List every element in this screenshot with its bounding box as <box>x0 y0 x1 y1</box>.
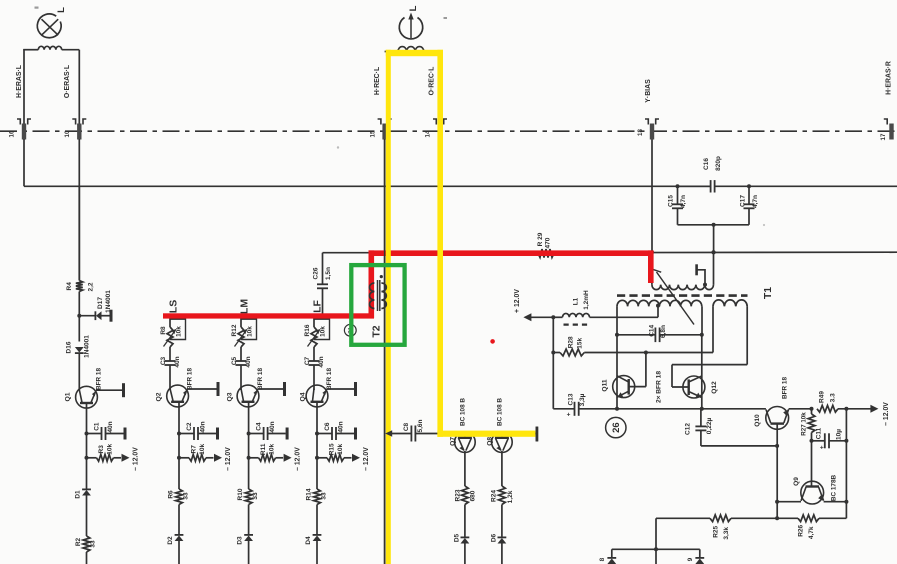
trimmer R8 10k <box>160 316 185 354</box>
resistor R11 10k to -12V <box>247 443 292 462</box>
transistor Q3 BFR18 <box>226 368 286 407</box>
coil of erase head <box>38 46 61 49</box>
wire C8 line <box>392 433 412 435</box>
node T1 right top <box>712 250 716 254</box>
svg-text:470: 470 <box>545 237 552 248</box>
label 2x BFR 18 <box>656 371 663 403</box>
transformer T2 secondary <box>381 283 386 309</box>
capacitor C26 1,5n <box>313 253 333 317</box>
svg-text:C12: C12 <box>685 423 692 435</box>
svg-text:4,7k: 4,7k <box>808 526 815 539</box>
wire Q2 emitter chain <box>178 402 180 458</box>
resistor R28 15k <box>553 336 713 356</box>
svg-text:680: 680 <box>470 490 477 501</box>
label H-REC-L <box>374 67 381 95</box>
svg-text:R49: R49 <box>819 391 826 403</box>
svg-text:10k: 10k <box>268 443 275 454</box>
wire +12V down to C13 <box>552 353 554 409</box>
wire bottom-left drop <box>654 518 658 564</box>
T1 center tap <box>656 304 660 318</box>
svg-text:40n: 40n <box>269 421 276 432</box>
transformer T2 primary <box>370 283 375 309</box>
svg-text:BFR 18: BFR 18 <box>186 368 193 390</box>
svg-text:D5: D5 <box>453 533 460 542</box>
diode D1 <box>75 458 91 536</box>
svg-text:BC 178B: BC 178B <box>831 474 838 501</box>
wire bias line (y252) <box>323 251 897 254</box>
svg-text:C2: C2 <box>186 422 193 431</box>
node T1 left top <box>650 250 654 254</box>
T1 adjust arrow <box>653 269 694 324</box>
svg-text:R16: R16 <box>304 324 311 336</box>
node Q10/C12 <box>775 444 779 448</box>
capacitor C15 4,7n <box>668 186 688 225</box>
svg-text:2,2: 2,2 <box>87 282 94 291</box>
wire H-REC-L vertical full <box>384 139 386 564</box>
svg-text:10k: 10k <box>176 326 183 337</box>
wire record head top <box>385 51 440 53</box>
svg-text:Q1: Q1 <box>65 392 72 401</box>
transformer T1 bottom winding A <box>617 300 702 334</box>
node R49/C11 branch <box>844 407 848 411</box>
capacitor C17 4,7n <box>739 186 759 225</box>
svg-text:BC 108 B: BC 108 B <box>460 398 467 426</box>
capacitor C8 5,6n <box>403 419 537 441</box>
transformer T2 core <box>378 280 380 311</box>
transistor Q11 BFR18 <box>601 351 648 398</box>
svg-text:R24: R24 <box>491 490 498 502</box>
capacitor C13 3,3µ <box>553 393 586 418</box>
resistor R15 10k to -12V <box>315 443 360 462</box>
capacitor C2 40n <box>177 421 219 440</box>
wire C11 right vertical <box>845 409 847 519</box>
svg-text:Q7: Q7 <box>449 437 456 446</box>
svg-text:– 12.0V: – 12.0V <box>132 447 139 471</box>
resistor R49 3.3 <box>817 391 871 413</box>
erase head L (circle with X) <box>37 14 61 38</box>
C8 junction arrow <box>385 430 392 437</box>
svg-text:3.3: 3.3 <box>830 393 837 402</box>
diode D17 1N4001 <box>79 290 112 322</box>
capacitor C11 10µ <box>810 427 849 451</box>
svg-text:33: 33 <box>183 492 190 500</box>
svg-text:L1: L1 <box>573 297 580 305</box>
svg-text:H·REC·L: H·REC·L <box>374 67 381 95</box>
svg-text:Q3: Q3 <box>226 392 233 401</box>
svg-text:10µ: 10µ <box>835 429 842 440</box>
svg-text:5,6n: 5,6n <box>417 419 424 432</box>
capacitor C12 0,22µ <box>685 409 777 446</box>
svg-text:L: L <box>408 5 419 11</box>
svg-text:R2: R2 <box>75 537 82 546</box>
transistor Q12 BFR18 <box>672 365 747 398</box>
circled 26 <box>606 417 626 437</box>
resistor R25 3,3k <box>710 515 779 540</box>
label O-REC-L <box>428 67 435 96</box>
resistor R24 1,2k <box>491 486 515 505</box>
svg-text:D3: D3 <box>237 536 244 545</box>
coil of record head <box>398 47 424 52</box>
svg-text:Q12: Q12 <box>711 381 718 394</box>
transistor Q9 BC178B <box>775 441 848 504</box>
svg-text:26: 26 <box>611 422 622 433</box>
svg-text:R11: R11 <box>260 443 267 455</box>
svg-text:D2: D2 <box>167 536 174 545</box>
yellow highlight trace <box>386 50 536 564</box>
svg-text:16: 16 <box>9 130 16 137</box>
svg-text:D1: D1 <box>75 490 82 499</box>
diode D16 1N4001 <box>65 316 90 390</box>
label LS <box>167 300 179 313</box>
label -12.0V col2 <box>225 447 232 471</box>
svg-text:40n: 40n <box>318 356 325 367</box>
svg-text:D17: D17 <box>97 297 104 309</box>
wire +12V down to R28 <box>551 317 555 354</box>
svg-text:R26: R26 <box>797 524 804 536</box>
wire LF line (under red) <box>170 315 374 317</box>
resistor R3 10k to -12V <box>85 443 130 461</box>
label L (record head) <box>408 5 419 11</box>
T1 tap bracket <box>695 264 707 286</box>
svg-text:C16: C16 <box>703 158 710 170</box>
diode D9 <box>687 549 704 564</box>
svg-text:D6: D6 <box>490 533 497 542</box>
inductor L1 1,2mH <box>553 290 658 325</box>
svg-text:O·REC·L: O·REC·L <box>428 67 435 96</box>
trimmer R12 10k <box>231 316 256 354</box>
svg-text:R3: R3 <box>98 445 105 454</box>
svg-text:T1: T1 <box>762 287 774 299</box>
svg-text:40n: 40n <box>338 421 345 432</box>
svg-text:– 12.0V: – 12.0V <box>295 447 302 471</box>
svg-text:LF: LF <box>311 300 323 313</box>
capacitor C3 40n <box>160 354 181 390</box>
connector pin 15 <box>369 119 391 140</box>
transformer T1 core <box>617 294 748 297</box>
svg-text:8: 8 <box>599 557 606 561</box>
wire oscillator emitter rail <box>579 408 766 410</box>
svg-text:C14: C14 <box>648 324 655 336</box>
svg-text:BFR 18: BFR 18 <box>782 377 789 399</box>
resistor R7 10k to -12V <box>177 443 222 461</box>
svg-text:C6: C6 <box>324 422 331 431</box>
wire Q3 emitter chain <box>248 402 250 458</box>
label T1 <box>762 287 774 299</box>
wire R25 line <box>656 517 710 519</box>
diode D3 <box>237 505 253 564</box>
svg-text:R6: R6 <box>168 490 175 499</box>
svg-text:10k: 10k <box>320 326 327 337</box>
green highlight box <box>351 265 404 345</box>
circled 21 <box>344 324 356 336</box>
svg-text:3,3µ: 3,3µ <box>579 393 586 406</box>
svg-text:2× BFR 18: 2× BFR 18 <box>656 371 663 403</box>
resistor R27 10k <box>801 409 815 441</box>
svg-text:BC 108 B: BC 108 B <box>497 398 504 426</box>
label Y-BIAS <box>645 79 652 103</box>
resistor R14 33 <box>306 458 328 505</box>
label H-ERAS-L <box>16 65 23 98</box>
svg-text:R15: R15 <box>328 443 335 455</box>
svg-text:C8: C8 <box>403 422 410 431</box>
svg-text:Q2: Q2 <box>155 392 162 401</box>
terminal bar <box>536 427 539 442</box>
capacitor C4 40n <box>247 421 289 440</box>
svg-text:40n: 40n <box>245 356 252 367</box>
svg-text:R27 10k: R27 10k <box>801 412 808 436</box>
wire Q4 emitter chain <box>316 402 318 458</box>
svg-text:C11: C11 <box>816 427 823 439</box>
capacitor C5 40n <box>231 354 252 390</box>
label T2 <box>371 325 383 337</box>
svg-text:Q8: Q8 <box>487 437 494 446</box>
capacitor C7 40n <box>304 354 325 390</box>
yellow keeps black wire visible <box>384 139 386 564</box>
wire Q10 emitter to R49 <box>789 407 814 411</box>
svg-text:1,2k: 1,2k <box>507 490 514 503</box>
svg-text:17: 17 <box>880 133 887 140</box>
resistor R23 680 <box>455 486 477 505</box>
wire Q1 emitter chain <box>86 403 88 458</box>
connector pin 17 <box>880 119 893 140</box>
board boundary dash-dot line <box>0 130 897 132</box>
diode D2 <box>167 505 183 564</box>
svg-text:40n: 40n <box>107 421 114 432</box>
connector pin 14 <box>425 119 447 140</box>
svg-text:– 12.0V: – 12.0V <box>363 447 370 471</box>
svg-text:C3: C3 <box>160 356 167 365</box>
svg-text:H·ERAS·R: H·ERAS·R <box>885 61 892 95</box>
label H-ERAS-R <box>885 61 892 95</box>
node R4/D17/D16 <box>77 314 81 318</box>
label O-ERAS-L <box>64 65 71 98</box>
label -12.0V col4 <box>363 447 370 471</box>
svg-text:H·ERAS·L: H·ERAS·L <box>16 65 23 98</box>
svg-text:R14: R14 <box>306 488 313 500</box>
record head L (circle with arrow) <box>399 13 422 39</box>
svg-text:C15: C15 <box>668 195 675 207</box>
svg-text:D4: D4 <box>305 536 312 545</box>
node C17 on rail <box>747 184 751 188</box>
svg-text:R23: R23 <box>455 489 462 501</box>
svg-text:R8: R8 <box>160 326 167 335</box>
svg-text:C5: C5 <box>231 356 238 365</box>
svg-text:LS: LS <box>167 300 179 313</box>
capacitor C14 6,8n <box>615 324 704 342</box>
transistor Q10 BFR18 <box>754 377 788 519</box>
wire erase-left ground rail (y186) <box>24 139 897 186</box>
diode D8 <box>599 549 616 564</box>
svg-text:10k: 10k <box>199 443 206 454</box>
label -12.0V col1 <box>132 447 139 471</box>
diode D5 <box>453 505 469 564</box>
svg-text:1,2mH: 1,2mH <box>583 290 590 310</box>
svg-text:33: 33 <box>321 492 328 500</box>
svg-text:Q9: Q9 <box>793 477 800 486</box>
svg-text:1,5n: 1,5n <box>325 267 332 280</box>
svg-text:R 29: R 29 <box>537 232 544 246</box>
svg-text:3,3k: 3,3k <box>723 527 730 540</box>
label -12.0V col3 <box>295 447 302 471</box>
svg-text:C7: C7 <box>304 356 311 365</box>
svg-text:6,8n: 6,8n <box>660 325 667 338</box>
wire O-ERAS-L continues <box>78 139 80 281</box>
svg-text:BFR 18: BFR 18 <box>95 368 102 390</box>
svg-text:BFR 18: BFR 18 <box>257 368 264 390</box>
trimmer R16 10k <box>304 316 329 354</box>
svg-text:820p: 820p <box>715 156 722 171</box>
svg-text:40n: 40n <box>174 356 181 367</box>
transformer T1 top winding <box>652 252 714 290</box>
wire O-REC-L vertical <box>439 139 441 434</box>
svg-text:– 12.0V: – 12.0V <box>225 447 232 471</box>
svg-text:BFR 18: BFR 18 <box>326 368 333 390</box>
wire erase head right (O-ERAS-L) <box>62 50 80 124</box>
svg-text:R12: R12 <box>231 324 238 336</box>
svg-text:C1: C1 <box>94 422 101 431</box>
svg-text:4,7n: 4,7n <box>752 195 759 208</box>
node +12V rail <box>551 315 555 319</box>
transistor Q8 BC108B <box>487 398 513 486</box>
svg-text:10k: 10k <box>337 443 344 454</box>
svg-text:10k: 10k <box>247 326 254 337</box>
svg-text:18: 18 <box>637 129 644 136</box>
red dot mark <box>490 339 495 344</box>
svg-text:Q4: Q4 <box>299 392 306 401</box>
svg-text:1N4001: 1N4001 <box>105 290 112 313</box>
resistor R4 2,2 <box>66 186 94 315</box>
connector pin 18 <box>637 119 659 140</box>
transistor Q1 BFR18 <box>65 368 125 409</box>
svg-text:Q10: Q10 <box>754 414 761 427</box>
svg-text:C17: C17 <box>739 195 746 207</box>
svg-text:R7: R7 <box>190 445 197 454</box>
svg-text:R10: R10 <box>237 488 244 500</box>
svg-text:T2: T2 <box>371 325 383 337</box>
node C15 on rail <box>676 184 680 188</box>
label LM <box>238 299 250 314</box>
transformer T1 bottom winding B <box>713 300 747 365</box>
label LF <box>311 300 323 313</box>
svg-text:14: 14 <box>425 130 432 137</box>
svg-text:15: 15 <box>369 130 376 137</box>
terminal bar over yellow <box>536 427 539 442</box>
svg-text:10: 10 <box>64 130 71 137</box>
svg-text:C4: C4 <box>256 422 263 431</box>
wire erase head left (H-ERAS-L) <box>23 49 38 124</box>
svg-text:40n: 40n <box>200 421 207 432</box>
svg-text:10k: 10k <box>106 443 113 454</box>
svg-text:C26: C26 <box>313 267 320 279</box>
svg-text:O·ERAS·L: O·ERAS·L <box>64 65 71 98</box>
scan specks <box>35 7 766 227</box>
resistor R29 470 <box>537 232 554 257</box>
svg-text:15k: 15k <box>577 337 584 348</box>
diode D6 <box>490 505 506 564</box>
connector pin 16 <box>9 119 31 140</box>
resistor R6 33 <box>168 458 190 505</box>
red highlight trace <box>163 250 654 318</box>
svg-text:R28: R28 <box>568 336 575 348</box>
transistor Q2 BFR18 <box>155 368 219 407</box>
svg-text:R4: R4 <box>66 282 73 291</box>
svg-text:D16: D16 <box>65 341 72 353</box>
resistor R26 4,7k <box>777 515 846 539</box>
svg-text:33: 33 <box>90 540 97 548</box>
resistor R2 33 <box>75 536 97 564</box>
svg-text:+: + <box>820 445 824 452</box>
transistor Q4 BFR18 <box>299 368 357 407</box>
label L (erase head) <box>56 7 67 13</box>
resistor R10 33 <box>237 458 259 505</box>
svg-text:C13: C13 <box>567 393 574 405</box>
svg-text:9: 9 <box>687 557 694 561</box>
svg-text:– 12.0V: – 12.0V <box>883 402 890 426</box>
wire diode row <box>612 548 700 550</box>
wire Q11 collector line <box>615 335 619 411</box>
wire Q12 collector line <box>700 335 704 411</box>
supply +12.0V arrow <box>514 289 553 322</box>
svg-text:R25: R25 <box>713 525 720 537</box>
svg-text:L: L <box>56 7 67 13</box>
wire C15/C17 bottoms join <box>678 223 750 255</box>
T2 polarity dot <box>380 275 383 278</box>
wire Y-BIAS vertical <box>651 140 653 252</box>
diode D4 <box>305 505 321 564</box>
svg-text:Q11: Q11 <box>601 379 608 391</box>
capacitor C1 40n <box>85 421 127 440</box>
svg-text:LM: LM <box>238 299 250 314</box>
svg-text:0,22µ: 0,22µ <box>706 418 713 435</box>
svg-text:+ 12.0V: + 12.0V <box>514 289 521 313</box>
svg-text:4,7n: 4,7n <box>680 195 687 208</box>
supply -12.0V arrow right <box>870 402 889 426</box>
svg-text:Y·BIAS: Y·BIAS <box>645 79 652 103</box>
svg-text:1N4001: 1N4001 <box>84 335 91 358</box>
capacitor C6 40n <box>315 421 357 440</box>
svg-text:+: + <box>567 412 571 419</box>
svg-text:33: 33 <box>252 492 259 500</box>
capacitor C16 820p <box>678 156 723 192</box>
connector pin 10 <box>64 119 86 140</box>
transistor Q7 BC108B <box>449 398 475 486</box>
